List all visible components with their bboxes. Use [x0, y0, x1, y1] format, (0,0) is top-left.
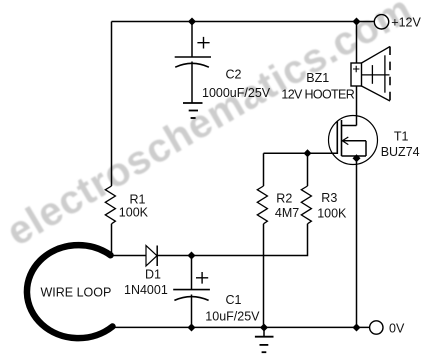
- wire left vertical to R1: [111, 22, 113, 187]
- svg-text:+12V: +12V: [391, 16, 421, 30]
- svg-text:12V HOOTER: 12V HOOTER: [281, 87, 354, 101]
- wire R2 top lead: [263, 153, 265, 186]
- svg-text:10uF/25V: 10uF/25V: [205, 310, 260, 324]
- wire R2 bottom lead (crosses D1 wire, no dot): [263, 224, 265, 328]
- node: junction dot top rail / C2: [189, 18, 196, 25]
- wire bottom rail: [111, 326, 370, 328]
- wire D1 cathode to R3 bottom corner: [157, 224, 307, 256]
- resistor R3: [301, 186, 311, 224]
- svg-text:T1: T1: [394, 129, 409, 143]
- terminal +12V: [374, 15, 388, 29]
- diode D1: [146, 246, 157, 267]
- node: junction dot source/bottom: [353, 324, 360, 331]
- node: junction dot D1/C1: [188, 252, 195, 259]
- resistor R2: [257, 186, 267, 224]
- node: junction dot gate/R3: [304, 150, 311, 157]
- wire top rail: [112, 21, 375, 23]
- svg-text:BUZ74: BUZ74: [381, 145, 420, 159]
- svg-text:100K: 100K: [119, 206, 149, 220]
- capacitor C1: [173, 256, 210, 328]
- node: junction dot C1 bottom: [188, 324, 195, 331]
- node: junction dot top rail / speaker: [353, 18, 360, 25]
- capacitor C2: [175, 22, 211, 104]
- ground (bottom): [255, 328, 274, 353]
- svg-text:0V: 0V: [389, 322, 405, 336]
- svg-text:1000uF/25V: 1000uF/25V: [202, 86, 271, 100]
- wire gate rail: [264, 152, 338, 154]
- svg-text:BZ1: BZ1: [306, 71, 329, 85]
- wire R1 bottom lead: [111, 224, 113, 256]
- svg-text:C2: C2: [226, 68, 242, 82]
- svg-text:WIRE LOOP: WIRE LOOP: [41, 286, 112, 300]
- terminal 0V: [370, 321, 383, 334]
- svg-text:C1: C1: [226, 293, 242, 307]
- resistor R1: [105, 186, 115, 224]
- svg-text:R1: R1: [130, 193, 146, 207]
- wire R3 top lead: [307, 153, 309, 186]
- ground (C2): [183, 103, 203, 118]
- node: junction dot source/body: [353, 155, 360, 162]
- node: junction dot ground: [261, 324, 268, 331]
- transistor T1 MOSFET BUZ74: [329, 116, 378, 165]
- svg-text:100K: 100K: [317, 207, 347, 221]
- svg-text:R2: R2: [276, 192, 292, 206]
- wire loop-top to D1 anode: [109, 255, 146, 257]
- svg-text:4M7: 4M7: [275, 206, 299, 220]
- wire speaker drop: [356, 22, 358, 64]
- buzzer BZ1 (speaker with piezo horn): [351, 47, 390, 102]
- svg-text:1N4001: 1N4001: [124, 283, 168, 297]
- svg-text:D1: D1: [145, 268, 161, 282]
- wire source to bottom rail: [356, 156, 358, 327]
- wire loop (thick arc sensor): [27, 245, 113, 338]
- wire speaker to drain: [356, 86, 358, 126]
- svg-text:R3: R3: [321, 191, 337, 205]
